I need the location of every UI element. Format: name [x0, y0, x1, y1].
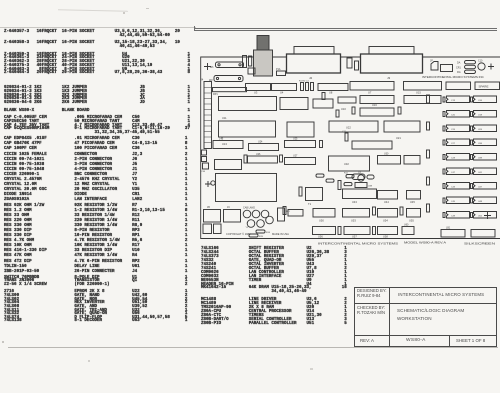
capacitor C15 [352, 107, 355, 114]
svg-text:C28: C28 [451, 158, 456, 160]
svg-text:C43: C43 [451, 187, 456, 189]
resistor R4 [316, 174, 324, 177]
svg-text:JC: JC [227, 206, 230, 209]
IC ladder row 4 left [447, 154, 470, 161]
svg-text:U24: U24 [478, 129, 483, 131]
capacitor C41 [252, 210, 260, 218]
svg-text:U39: U39 [478, 158, 483, 160]
svg-text:U27: U27 [293, 155, 298, 158]
capacitor C45b [373, 227, 376, 235]
svg-text:J2: J2 [309, 76, 313, 80]
connector J4 [204, 82, 212, 149]
capacitor C31 [283, 207, 286, 215]
svg-text:LB1: LB1 [446, 227, 451, 230]
fiducial cross top right [488, 64, 494, 70]
svg-text:U48: U48 [478, 201, 483, 203]
IC U10 [338, 97, 356, 103]
crystal Y1 [352, 174, 365, 180]
jumper W1 [216, 62, 244, 68]
capacitor C44 [266, 216, 274, 224]
IC U12 [280, 98, 308, 110]
parts list table 2 [201, 248, 347, 327]
capacitor C23 [320, 141, 323, 148]
capacitor C33 [427, 204, 430, 212]
svg-text:U24: U24 [258, 141, 263, 144]
capacitor C28 [443, 155, 445, 160]
IC ladder row 7 right [474, 197, 497, 204]
IC ladder row 8 right [474, 212, 497, 219]
IC U58 [378, 227, 398, 235]
svg-text:C20: C20 [451, 115, 456, 117]
IC ladder row 6 left [447, 183, 470, 190]
square pad C34 [203, 163, 209, 169]
svg-text:U54: U54 [383, 219, 388, 223]
top border double line [193, 26, 196, 31]
svg-text:U10: U10 [341, 107, 346, 111]
capacitor C10 [478, 63, 485, 70]
svg-text:U44: U44 [384, 200, 389, 204]
IC ladder row 3 left [447, 139, 470, 146]
crystal Y2 [247, 220, 255, 228]
parts list block A [4, 31, 190, 136]
svg-text:COPYRIGHT © 1984: COPYRIGHT © 1984 [226, 232, 251, 236]
fiducial cross bottom right [484, 212, 491, 219]
IC U13 [219, 121, 276, 137]
resistor R2 [306, 83, 309, 91]
IC U11 [219, 97, 277, 111]
svg-text:Y2: Y2 [246, 227, 249, 229]
svg-text:C10: C10 [478, 60, 483, 63]
pad A1 [202, 150, 207, 155]
connector J2 body [287, 54, 341, 73]
capacitor C32 [367, 175, 374, 179]
IC UE2 [471, 230, 495, 238]
IC ladder row 3 right [474, 139, 497, 146]
svg-text:SPARE: SPARE [479, 85, 489, 89]
capacitor C42 [261, 210, 269, 218]
svg-text:CR1: CR1 [456, 66, 461, 69]
capacitor mid row 5 [471, 169, 473, 174]
fiducial cross mid left [205, 181, 211, 187]
capacitor C13 [443, 97, 445, 102]
capacitor C2 [248, 68, 255, 74]
svg-text:INTERCONTINENTAL MICRO SYSTEMS: INTERCONTINENTAL MICRO SYSTEMS INC [422, 75, 485, 79]
capacitor C37 [373, 207, 376, 215]
capacitor mid row 8 [471, 213, 473, 218]
fiducial cross top left [204, 63, 211, 70]
svg-text:U13: U13 [222, 142, 227, 146]
IC U22 [329, 121, 378, 132]
svg-text:U7: U7 [368, 91, 372, 95]
capacitor C40 [243, 210, 251, 218]
IC U18 [404, 96, 441, 104]
svg-text:T1: T1 [308, 202, 312, 206]
IC U44 [378, 191, 398, 200]
capacitor C1 [243, 56, 247, 68]
IC U31 [404, 156, 420, 165]
resistor R5 [326, 179, 334, 182]
IC U30 [378, 156, 401, 165]
svg-text:C26: C26 [451, 129, 456, 131]
IC U36 [215, 160, 242, 170]
IC U43 [343, 189, 377, 199]
resistor network RP1 [213, 88, 247, 92]
capacitor C22 [427, 150, 430, 158]
capacitor mid row 6 [471, 184, 473, 189]
svg-text:MODEL WS80-A REV.A: MODEL WS80-A REV.A [404, 241, 446, 245]
svg-text:U16: U16 [372, 103, 377, 107]
IC U54 [378, 209, 398, 218]
capacitor mid row 3 [471, 140, 473, 145]
svg-text:U16: U16 [478, 100, 483, 102]
capacitor C21 [345, 133, 348, 141]
IC U33 [352, 141, 392, 149]
IC ladder row 5 left [447, 168, 470, 175]
IC ladder row 0 left [447, 96, 470, 103]
capacitor mid row 1 [471, 112, 473, 117]
svg-text:C13: C13 [451, 100, 456, 102]
svg-text:C45: C45 [451, 201, 456, 203]
parts list block C [4, 277, 187, 325]
svg-text:U22: U22 [346, 126, 351, 130]
IC U57 [344, 227, 370, 235]
svg-text:U50: U50 [319, 219, 324, 223]
svg-text:U8: U8 [329, 91, 333, 95]
jumper block JD [203, 224, 212, 234]
capacitor C19 [427, 122, 430, 130]
svg-text:R15: R15 [259, 236, 264, 238]
svg-text:U58: U58 [383, 235, 388, 239]
connector P1A [277, 71, 286, 76]
svg-text:R1 R2 C4: R1 R2 C4 [299, 81, 309, 83]
svg-text:U34: U34 [478, 143, 483, 145]
IC U27 [285, 158, 316, 165]
IC ladder row 4 right [474, 154, 497, 161]
capacitor C48 [249, 56, 252, 66]
svg-text:JB: JB [207, 206, 210, 209]
capacitor C43 [257, 220, 265, 228]
capacitor C25 [244, 155, 247, 163]
jumper block JA [214, 224, 222, 234]
capacitor C20 [443, 112, 445, 117]
svg-text:INTERCONTINENTAL MICRO SYSTE: INTERCONTINENTAL MICRO SYSTEMS [318, 242, 398, 246]
IC U25 [285, 141, 316, 148]
IC U23 [213, 141, 243, 149]
IC ladder row 0 right [474, 96, 497, 103]
IC ladder row 2 left [447, 125, 470, 132]
IC U53 [343, 209, 370, 218]
svg-text:U21: U21 [396, 136, 401, 140]
svg-text:DA: DA [457, 62, 461, 65]
IC LB1 [441, 230, 465, 238]
svg-text:J4: J4 [201, 78, 204, 82]
capacitor C24 [280, 155, 283, 162]
capacitor C49 [443, 213, 445, 218]
capacitor C38 [338, 181, 341, 190]
capacitor C17 [355, 61, 359, 70]
IC U45 [407, 191, 421, 200]
board outline [201, 57, 500, 239]
svg-text:C27: C27 [451, 143, 456, 145]
svg-text:U4: U4 [280, 91, 284, 95]
IC ladder row 1 right [474, 111, 497, 118]
jumper W2 [214, 76, 243, 82]
capacitor C45 [443, 198, 445, 203]
IC U56 [313, 227, 336, 235]
prototype area [216, 174, 277, 202]
IC ladder row 8 left [447, 212, 470, 219]
svg-text:U52: U52 [478, 216, 483, 218]
jumper block JC [224, 210, 241, 223]
svg-text:U41: U41 [478, 172, 483, 174]
IC U15 [404, 82, 442, 91]
IC U24 [249, 144, 279, 151]
capacitor mid row 0 [471, 97, 473, 102]
resistor R15 [249, 234, 258, 237]
svg-text:U25: U25 [293, 138, 298, 141]
capacitor mid row 2 [471, 126, 473, 131]
capacitor C27 [443, 140, 445, 145]
inductor DA [465, 61, 476, 64]
regulator VR1 body [254, 50, 273, 76]
resistor R12 [344, 183, 352, 186]
IC U26 [248, 156, 278, 163]
capacitor mid row 4 [471, 155, 473, 160]
svg-text:U55: U55 [409, 219, 414, 223]
parts list block B [4, 137, 187, 275]
faint top rule left [0, 26, 196, 29]
capacitor C26 [443, 126, 445, 131]
capacitor C18 [336, 110, 339, 117]
IC ladder row 5 right [474, 168, 497, 175]
resistor R1 [301, 83, 304, 91]
IC U38 [355, 183, 367, 188]
jumper block JB [204, 210, 221, 223]
svg-text:U53: U53 [351, 219, 356, 223]
IC U17 [360, 108, 394, 116]
svg-text:P1A: P1A [276, 68, 281, 71]
svg-text:U43: U43 [352, 200, 357, 204]
svg-text:MADE IN USA: MADE IN USA [272, 232, 289, 236]
IC ladder row 7 left [447, 197, 470, 204]
bottom faint rule [8, 346, 498, 349]
capacitor C35 [338, 227, 341, 235]
svg-text:U3: U3 [254, 91, 258, 95]
IC U60 [402, 227, 414, 235]
capacitor mid row 7 [471, 198, 473, 203]
IC ladder row 6 right [474, 183, 497, 190]
IC U32 [329, 156, 370, 171]
capacitor C14 [427, 95, 430, 103]
regulator VR1 tab [257, 36, 269, 51]
title block [354, 287, 497, 347]
capacitor C11 [347, 58, 352, 68]
resistor R14 [256, 230, 265, 233]
capacitor C16 [322, 93, 325, 100]
svg-text:U60: U60 [404, 224, 409, 227]
connector J2 lip [294, 47, 334, 55]
IC U9 [313, 99, 333, 108]
svg-text:RP1: RP1 [213, 93, 218, 96]
svg-text:U56: U56 [318, 235, 323, 239]
diode CR1 [465, 65, 476, 68]
transformer T1 [306, 188, 323, 201]
IC U7 [350, 82, 394, 91]
IC U50 [313, 209, 335, 218]
svg-text:JP: JP [430, 60, 433, 63]
svg-text:RG: RG [457, 71, 461, 74]
svg-text:U45: U45 [410, 200, 415, 204]
connector J3 lip [369, 47, 414, 55]
IC ladder row 1 left [447, 111, 470, 118]
capacitor C43 [443, 184, 445, 189]
capacitor C30 [299, 187, 302, 196]
svg-text:U15: U15 [416, 91, 421, 95]
IC U21 [384, 121, 420, 132]
resistor RG [465, 70, 476, 73]
svg-text:C49: C49 [451, 216, 456, 218]
capacitor C12 [398, 107, 401, 114]
capacitor C51 [211, 181, 215, 185]
svg-text:L4B: L4B [219, 138, 224, 141]
IC U49 [288, 210, 303, 217]
connector UE1 [278, 208, 285, 221]
scan smudge top [58, 9, 128, 11]
svg-text:CAB LAND: CAB LAND [243, 207, 255, 210]
jumper JP1 [431, 62, 438, 71]
IC row right top a [446, 82, 471, 90]
capacitor C47 [443, 169, 445, 174]
IC U55 [407, 209, 421, 218]
svg-text:R14: R14 [266, 232, 271, 234]
IC U8 [318, 84, 348, 91]
svg-text:U18: U18 [478, 115, 483, 117]
svg-text:W1: W1 [210, 66, 214, 69]
svg-text:U47: U47 [478, 187, 483, 189]
connector J3 body [361, 54, 423, 73]
svg-text:J3: J3 [387, 76, 391, 80]
diode CR2 [441, 65, 453, 72]
IC U4 [272, 84, 297, 91]
svg-text:U26: U26 [256, 153, 261, 156]
IC spare [475, 82, 500, 90]
svg-text:U38: U38 [368, 186, 373, 188]
resistor R11 [346, 175, 354, 178]
IC ladder row 2 right [474, 125, 497, 132]
transistor Q1 [358, 175, 364, 181]
svg-text:U30: U30 [384, 153, 389, 156]
svg-text:U32: U32 [344, 162, 349, 166]
IC U14 [287, 122, 314, 137]
IC U3 [246, 84, 271, 91]
svg-text:U57: U57 [352, 235, 357, 239]
svg-text:U11: U11 [222, 116, 227, 120]
svg-text:C47: C47 [451, 172, 456, 174]
resistor R3 [311, 83, 314, 91]
pad A2 [202, 157, 207, 162]
capacitor C29 [427, 177, 430, 185]
svg-text:C34: C34 [201, 171, 206, 173]
IC U16 [360, 96, 394, 104]
capacitor C39 [400, 207, 403, 215]
svg-text:SILKSCREEN: SILKSCREEN [464, 242, 495, 246]
